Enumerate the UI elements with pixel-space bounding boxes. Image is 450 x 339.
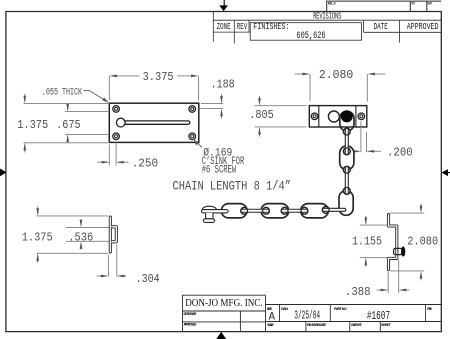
large open hole	[328, 111, 339, 122]
svg-text:SHEET: SHEET	[381, 323, 392, 327]
plate outline	[309, 106, 367, 127]
centering mark right	[441, 169, 450, 176]
svg-text:DATE: DATE	[374, 22, 388, 32]
dim .675	[65, 104, 109, 143]
right portion	[266, 304, 442, 306]
svg-text:.304: .304	[136, 272, 160, 286]
inner vertical line right	[355, 106, 357, 127]
dim .250	[97, 142, 129, 166]
dim .805	[255, 96, 307, 137]
left screw hole	[311, 113, 318, 120]
svg-text:WT: WT	[412, 1, 416, 5]
svg-text:1.155: 1.155	[352, 234, 382, 248]
svg-text:#6 SCREW: #6 SCREW	[202, 165, 237, 177]
keeper pin	[394, 246, 406, 256]
svg-text:DON-JO MFG. INC.: DON-JO MFG. INC.	[185, 297, 263, 309]
svg-text:PART NO.: PART NO.	[334, 307, 347, 311]
label Ø.169 C'SINK with leader	[195, 141, 202, 148]
svg-text:.805: .805	[249, 108, 273, 122]
centering mark left	[0, 168, 7, 176]
screw hole top-right	[189, 106, 196, 113]
screw hole bottom-left	[113, 133, 120, 140]
terminal base	[203, 219, 214, 223]
svg-text:SHT: SHT	[428, 1, 433, 5]
svg-text:2.080: 2.080	[407, 234, 438, 248]
dim .388	[377, 260, 410, 294]
screw hole bottom-right	[189, 133, 196, 140]
horizontal wide link A	[221, 204, 247, 218]
REVISIONS table	[213, 12, 441, 44]
svg-text:REVISIONS: REVISIONS	[313, 12, 341, 22]
svg-text:3/25/04: 3/25/04	[294, 309, 320, 322]
svg-text:.250: .250	[132, 157, 159, 171]
svg-text:DESIGNER: DESIGNER	[184, 312, 197, 316]
svg-text:REL.N: REL.N	[328, 1, 336, 5]
dim 3.375	[109, 76, 198, 101]
svg-text:.536: .536	[68, 231, 93, 245]
black chain post circle (on bracket)	[341, 110, 353, 122]
svg-text:1.375: 1.375	[17, 118, 48, 132]
svg-text:.200: .200	[387, 145, 413, 159]
vertical edge link 2 knobs	[343, 128, 350, 135]
dim .200	[352, 121, 382, 152]
svg-text:.675: .675	[56, 118, 81, 132]
svg-text:CHAIN LENGTH 8 1/4”: CHAIN LENGTH 8 1/4”	[173, 179, 292, 194]
svg-text:SCALE: SCALE	[267, 323, 274, 327]
horizontal edge link 2 bar	[281, 209, 308, 212]
svg-text:#1607: #1607	[367, 309, 390, 323]
finishes value box	[250, 23, 361, 41]
terminal cap dome	[202, 206, 216, 209]
centering mark bottom	[216, 332, 226, 339]
svg-text:605,626: 605,626	[296, 30, 325, 42]
dim 2.080 (top)	[294, 74, 385, 101]
svg-text:.055 THICK: .055 THICK	[42, 87, 82, 99]
horizontal wide link B	[261, 204, 289, 218]
vertical edge link 4 bar	[345, 166, 348, 194]
vertical edge link 4 knobs	[343, 166, 350, 173]
corner edge link knob	[322, 207, 329, 214]
svg-text:REV: REV	[237, 22, 248, 32]
svg-text:2.080: 2.080	[319, 68, 353, 82]
vertical edge link 2 bar	[345, 128, 348, 154]
dim 2.080 (right)	[390, 204, 424, 281]
svg-text:ZONE: ZONE	[217, 22, 231, 32]
dim .304	[97, 245, 127, 277]
dim .536	[66, 219, 112, 249]
dim 1.375 (plate height)	[24, 94, 110, 153]
centering mark top	[219, 0, 228, 11]
svg-text:3.375: 3.375	[143, 70, 174, 84]
keyhole slot	[116, 118, 189, 127]
vertical wide link 1 (hangs on post)	[340, 111, 354, 131]
chain end terminal	[202, 206, 229, 222]
svg-text:A: A	[269, 311, 276, 323]
right screw hole	[358, 113, 365, 120]
dim 1.155	[360, 216, 388, 267]
svg-text:REV: REV	[427, 307, 433, 311]
screw hole top-left	[113, 106, 120, 113]
svg-text:APPROVED: APPROVED	[184, 323, 197, 327]
svg-text:.188: .188	[211, 78, 235, 92]
svg-text:WEIGHT: WEIGHT	[351, 323, 363, 327]
svg-text:DWN.: DWN.	[281, 307, 288, 311]
vertical wide link 3	[340, 146, 354, 170]
horizontal wide link C	[301, 204, 329, 218]
svg-text:RELEASE DATE: RELEASE DATE	[307, 323, 327, 327]
svg-text:1.375: 1.375	[22, 231, 53, 245]
terminal bar	[202, 210, 229, 213]
inner vertical line left	[318, 106, 320, 127]
dim 1.375 (profile)	[37, 206, 108, 263]
svg-text:FINISHES:: FINISHES:	[253, 22, 289, 32]
vertical corner link 5	[339, 191, 353, 216]
horizontal edge link 1 knobs	[241, 207, 248, 214]
don-jo box	[183, 295, 266, 331]
svg-text:.388: .388	[345, 285, 371, 299]
dim .188	[200, 94, 223, 119]
terminal stem	[206, 213, 213, 219]
horizontal edge link 2 knobs	[281, 207, 288, 214]
horizontal edge link 1 bar	[241, 209, 270, 212]
corner edge link bar	[322, 208, 345, 211]
svg-text:APPROVED: APPROVED	[407, 22, 439, 32]
plate outline	[109, 103, 199, 142]
partial row above top border	[327, 1, 442, 11]
